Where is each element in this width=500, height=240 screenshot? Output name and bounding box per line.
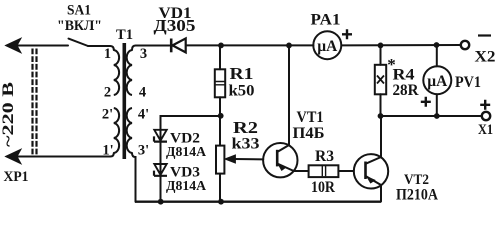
svg-text:R4: R4: [393, 67, 415, 84]
wire: mains lower from plug arrow to primary bottom: [7, 153, 114, 157]
svg-text:R1: R1: [230, 64, 254, 83]
terminal X2: [461, 41, 469, 49]
svg-text:Д814А: Д814А: [166, 179, 207, 194]
plug XP1 dashed boundary: [33, 49, 37, 156]
plug pin arrow lower (XP1): [6, 149, 22, 164]
svg-text:SA1: SA1: [67, 3, 91, 19]
transformer T1 primary winding (sections 1-2, 2'-1'): [114, 50, 119, 95]
node: R2 bottom on rail: [218, 199, 224, 205]
svg-text:VT1: VT1: [297, 109, 324, 126]
wire: diode VD1 to ammeter PA1: [187, 44, 314, 46]
resistor R3: [309, 165, 354, 177]
svg-text:2': 2': [102, 107, 113, 123]
svg-text:1: 1: [104, 46, 111, 62]
node: R1 bottom junction: [218, 113, 224, 119]
transistor VT2: [354, 116, 388, 202]
node: R4 top junction: [378, 43, 384, 49]
plug pin arrow upper (XP1): [6, 38, 22, 53]
label + (PA1): [342, 29, 352, 39]
wire: junction to zener branch: [161, 116, 221, 202]
svg-text:3': 3': [138, 143, 149, 159]
resistor R1: [215, 45, 225, 145]
transformer T1 secondary winding (sections 3-4, 4'-3'): [127, 50, 132, 95]
label − (X2): [478, 34, 491, 36]
svg-text:10R: 10R: [311, 179, 335, 196]
label + (PV1): [421, 97, 431, 107]
svg-text:µА: µА: [317, 38, 337, 55]
label + (X1): [480, 100, 490, 110]
node: PV1 bottom junction: [434, 113, 440, 119]
svg-text:Т1: Т1: [116, 27, 133, 43]
terminal X1: [482, 112, 490, 120]
svg-text:ХР1: ХР1: [4, 169, 29, 185]
svg-text:R2: R2: [233, 118, 258, 137]
svg-text:П4Б: П4Б: [293, 125, 325, 142]
svg-text:Д305: Д305: [154, 16, 196, 35]
node: PV1 top junction: [434, 42, 440, 48]
wire: bus to X1: [381, 115, 482, 117]
svg-text:Д814А: Д814А: [166, 145, 207, 160]
svg-text:k33: k33: [232, 136, 260, 153]
svg-text:3: 3: [140, 46, 147, 62]
transformer core: [123, 43, 127, 159]
node: VD3 bottom on rail: [158, 199, 164, 205]
voltmeter PV1: [423, 45, 451, 116]
svg-text:П210А: П210А: [396, 187, 439, 204]
svg-text:~220 В: ~220 В: [0, 82, 17, 147]
wire: PA1 to X2: [341, 44, 460, 46]
svg-text:µА: µА: [427, 73, 447, 90]
transistor VT1: [263, 45, 309, 177]
node: R4 bottom junction: [378, 113, 384, 119]
diode VD1: [171, 38, 186, 52]
svg-text:X2: X2: [475, 49, 496, 66]
switch SA1 lever: [69, 39, 89, 46]
svg-text:k50: k50: [229, 83, 255, 100]
zener VD2: [154, 130, 167, 142]
svg-text:PA1: PA1: [311, 12, 341, 29]
svg-text:PV1: PV1: [455, 74, 481, 91]
node: R1 top junction: [218, 43, 224, 49]
svg-text:1': 1': [102, 143, 113, 159]
wire: mains upper from plug arrow to switch: [7, 45, 68, 47]
wire: secondary top to diode VD1: [132, 46, 170, 51]
svg-text:X1: X1: [478, 122, 493, 138]
svg-text:2: 2: [104, 85, 111, 101]
wire: secondary bottom down: [132, 153, 136, 202]
svg-text:28R: 28R: [393, 82, 419, 99]
ammeter PA1: [313, 31, 341, 59]
zener VD3: [154, 164, 167, 176]
svg-text:R3: R3: [315, 148, 334, 165]
wire: switch to transformer primary top: [88, 46, 114, 50]
node: VT1 collector junction: [286, 43, 292, 49]
svg-text:4: 4: [139, 85, 146, 101]
wire: bottom rail: [135, 200, 381, 202]
resistor R4: [375, 45, 386, 116]
svg-text:4': 4': [138, 107, 149, 123]
potentiometer R2: [216, 146, 263, 202]
svg-text:"ВКЛ": "ВКЛ": [57, 18, 102, 34]
